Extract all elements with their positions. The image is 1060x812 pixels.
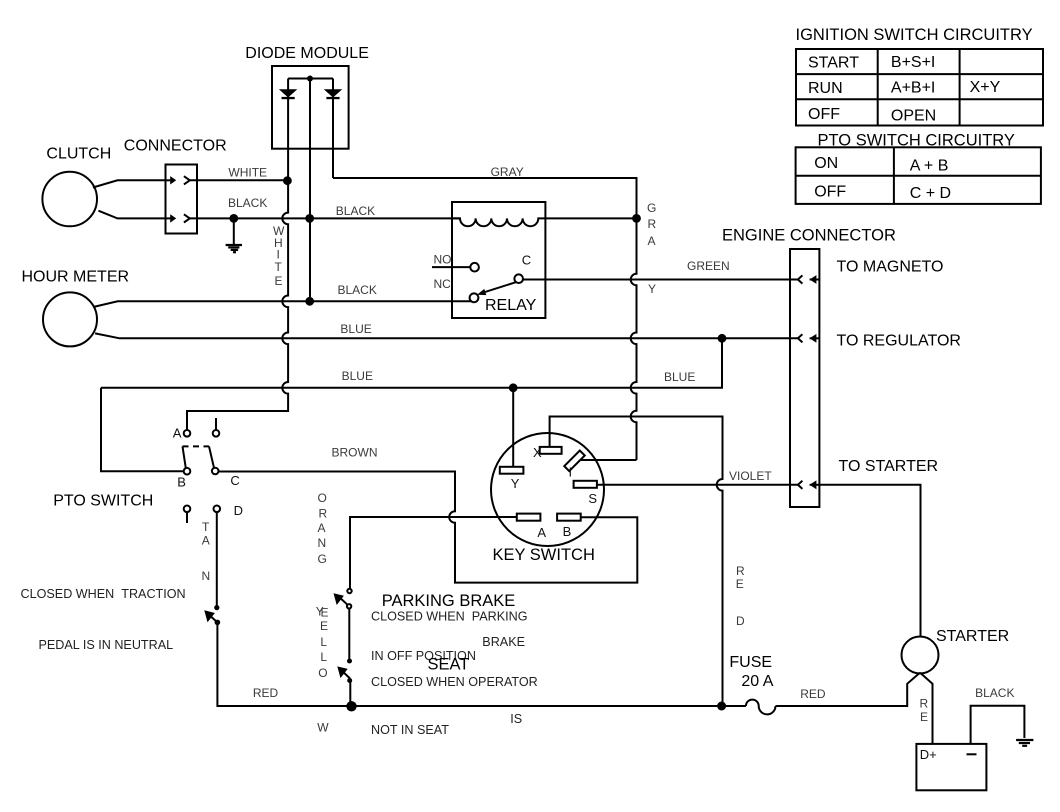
diode module top bus wire <box>288 78 333 80</box>
svg-text:BLACK: BLACK <box>228 196 267 210</box>
svg-text:C: C <box>522 253 531 268</box>
svg-text:A: A <box>537 525 546 540</box>
svg-text:RED: RED <box>800 687 826 701</box>
node dot diode bus <box>307 76 313 82</box>
key terminal I <box>564 451 585 472</box>
traction switch fixed dot <box>214 605 219 610</box>
svg-text:I: I <box>569 465 573 480</box>
svg-text:BLACK: BLACK <box>338 283 377 297</box>
wire right diode vertical <box>332 79 334 179</box>
node dot ground junction <box>229 214 238 223</box>
svg-text:E: E <box>736 577 744 591</box>
svg-text:BLUE: BLUE <box>664 370 695 384</box>
node dot regulator <box>718 334 727 343</box>
wire black connector to relay coil <box>190 217 460 219</box>
svg-text:STARTER: STARTER <box>936 628 1009 645</box>
pto table <box>796 147 1041 204</box>
wire key Y up to blue <box>512 388 514 467</box>
ground stub at connector <box>233 218 235 244</box>
PTO switch contact C <box>212 468 219 475</box>
wire starter to battery plus <box>920 673 933 744</box>
node dot black/middle-diode <box>305 214 314 223</box>
wire key X to red vertical <box>550 417 723 707</box>
svg-text:PTO SWITCH: PTO SWITCH <box>53 493 153 510</box>
diode module box <box>272 66 349 149</box>
wire traction to red <box>217 622 746 706</box>
svg-text:E: E <box>920 710 928 724</box>
svg-text:D+: D+ <box>920 747 937 762</box>
svg-text:X: X <box>533 445 542 460</box>
wire clutch bottom lead <box>98 211 165 219</box>
svg-text:R: R <box>920 697 929 711</box>
svg-text:CONNECTOR: CONNECTOR <box>124 138 227 155</box>
svg-text:RELAY: RELAY <box>485 297 537 314</box>
svg-text:A: A <box>648 234 656 248</box>
svg-text:IS: IS <box>510 712 522 726</box>
key terminal X <box>540 447 562 454</box>
wire hour meter bottom lead (blue) <box>95 333 798 338</box>
svg-text:CLUTCH: CLUTCH <box>46 146 111 163</box>
svg-text:IGNITION SWITCH CIRCUITRY: IGNITION SWITCH CIRCUITRY <box>796 26 1033 44</box>
svg-text:GREEN: GREEN <box>687 259 730 273</box>
svg-text:ENGINE CONNECTOR: ENGINE CONNECTOR <box>722 226 896 244</box>
svg-text:O: O <box>318 666 327 680</box>
svg-text:A+B+I: A+B+I <box>891 80 935 97</box>
node dot seat/red <box>346 701 356 711</box>
svg-text:TO MAGNETO: TO MAGNETO <box>837 259 944 276</box>
node dot gray/coil <box>632 214 641 223</box>
relay switch arm <box>484 282 516 292</box>
key terminal B <box>557 514 581 521</box>
svg-text:G: G <box>647 201 656 215</box>
svg-text:A: A <box>318 521 326 535</box>
wire gray <box>333 178 637 460</box>
svg-text:ON: ON <box>814 155 838 172</box>
svg-text:BROWN: BROWN <box>332 446 378 460</box>
svg-text:NOT IN SEAT: NOT IN SEAT <box>371 723 449 737</box>
connector arrow bottom row <box>170 214 176 222</box>
key terminal Y <box>500 467 524 474</box>
wire green relay C to engine connector <box>523 279 798 281</box>
svg-text:START: START <box>808 55 859 72</box>
node dot blue/Y <box>509 383 518 392</box>
wire orange key A to parking brake <box>350 517 517 589</box>
parking brake pivot contact <box>347 604 351 608</box>
svg-text:C: C <box>230 473 239 488</box>
node dot white junction <box>283 176 292 185</box>
svg-text:L: L <box>320 650 327 664</box>
svg-text:R: R <box>319 507 328 521</box>
svg-text:A: A <box>173 426 182 441</box>
svg-text:OFF: OFF <box>814 184 846 201</box>
svg-text:Y: Y <box>648 282 656 296</box>
node dot red/fuse <box>717 702 726 711</box>
starter circle <box>902 637 939 674</box>
svg-text:BLACK: BLACK <box>336 204 375 218</box>
PTO arm B <box>183 446 186 468</box>
node dot black2/middle-diode <box>305 297 314 306</box>
seat switch arm <box>343 671 351 678</box>
svg-text:BLUE: BLUE <box>342 369 373 383</box>
PTO switch contact B <box>184 468 191 475</box>
traction switch pivot dot <box>215 620 221 626</box>
wire PTO D down to traction switch <box>216 512 218 605</box>
wire NO stub <box>432 266 470 268</box>
svg-text:D: D <box>736 614 745 628</box>
svg-text:B: B <box>563 524 572 539</box>
relay box <box>452 202 545 318</box>
seat switch pivot dot <box>347 678 352 683</box>
wire seat to red <box>349 681 351 707</box>
svg-text:PTO SWITCH CIRCUITRY: PTO SWITCH CIRCUITRY <box>818 131 1015 149</box>
svg-text:A + B: A + B <box>910 158 949 175</box>
hour meter circle <box>43 292 97 346</box>
svg-text:A: A <box>202 534 210 548</box>
wire blue2 horizontal <box>101 338 722 388</box>
PTO top-right stub <box>215 418 217 430</box>
svg-text:R: R <box>648 217 657 231</box>
clutch circle <box>42 172 97 227</box>
ignition table <box>796 49 1043 126</box>
traction switch arm <box>210 615 218 622</box>
svg-text:OFF: OFF <box>808 106 840 123</box>
wire to starter <box>819 485 920 637</box>
svg-text:G: G <box>318 552 327 566</box>
PTO switch contact top-right <box>213 430 220 437</box>
svg-text:BRAKE: BRAKE <box>482 635 525 649</box>
svg-text:PARKING BRAKE: PARKING BRAKE <box>382 592 516 610</box>
svg-text:CLOSED WHEN PARKING: CLOSED WHEN PARKING <box>371 610 528 624</box>
svg-text:T: T <box>275 260 283 274</box>
wire middle diode vertical <box>309 79 311 302</box>
svg-text:CLOSED WHEN OPERATOR: CLOSED WHEN OPERATOR <box>371 675 538 689</box>
seat switch fixed dot <box>347 659 352 664</box>
wire hour meter top lead (black) <box>93 301 471 307</box>
svg-text:SEAT: SEAT <box>428 656 470 674</box>
svg-text:RED: RED <box>253 686 279 700</box>
svg-text:WHITE: WHITE <box>228 166 267 180</box>
PTO dashed link <box>183 445 210 447</box>
relay coil <box>452 218 637 226</box>
engine connector starter chevron <box>798 481 803 489</box>
PTO switch contact D <box>214 506 221 513</box>
svg-text:GRAY: GRAY <box>491 165 524 179</box>
key terminal S <box>574 481 597 488</box>
relay C contact <box>514 274 523 283</box>
svg-text:L: L <box>320 635 327 649</box>
svg-text:R: R <box>736 564 745 578</box>
svg-text:D: D <box>234 503 243 518</box>
svg-text:NC: NC <box>434 277 452 291</box>
parking brake arm <box>340 598 347 605</box>
PTO arm C <box>209 446 214 468</box>
PTO switch contact A <box>184 430 191 437</box>
svg-text:B: B <box>177 474 186 489</box>
svg-text:BLUE: BLUE <box>340 322 371 336</box>
connector arrow top row <box>170 176 176 184</box>
fuse symbol <box>746 700 776 715</box>
svg-text:N: N <box>202 569 211 583</box>
svg-text:TO REGULATOR: TO REGULATOR <box>837 333 961 350</box>
diode D2 <box>326 90 339 96</box>
PTO switch contact bottom-left <box>184 506 191 513</box>
wire I terminal <box>580 459 637 461</box>
svg-text:KEY SWITCH: KEY SWITCH <box>493 546 595 564</box>
svg-text:E: E <box>320 619 328 633</box>
svg-text:RUN: RUN <box>808 80 843 97</box>
svg-text:S: S <box>588 491 597 506</box>
svg-text:T: T <box>202 520 210 534</box>
svg-text:B+S+I: B+S+I <box>891 54 935 71</box>
svg-text:W: W <box>317 721 329 735</box>
svg-text:TO STARTER: TO STARTER <box>839 458 939 475</box>
battery minus bar <box>967 753 977 755</box>
parking brake top contact <box>347 589 351 593</box>
svg-text:FUSE: FUSE <box>729 654 772 671</box>
svg-text:Y: Y <box>316 605 324 619</box>
svg-text:X+Y: X+Y <box>970 79 1001 96</box>
svg-text:VIOLET: VIOLET <box>729 469 772 483</box>
connector box <box>166 165 198 234</box>
svg-text:NO: NO <box>434 252 452 266</box>
svg-text:O: O <box>318 491 327 505</box>
svg-text:E: E <box>275 274 283 288</box>
diode D1 <box>282 90 295 96</box>
wire battery black to ground <box>971 706 1025 744</box>
svg-text:OPEN: OPEN <box>891 108 936 125</box>
wire red fuse to starter <box>776 673 921 706</box>
wire violet key S to engine connector <box>597 484 798 486</box>
svg-text:BLACK: BLACK <box>975 686 1014 700</box>
engine connector magneto chevron <box>798 275 803 283</box>
relay NC contact <box>470 293 479 302</box>
svg-text:HOUR METER: HOUR METER <box>22 268 130 285</box>
wire parking brake to seat <box>348 609 350 660</box>
ground symbol connector <box>226 244 242 246</box>
engine connector box <box>790 249 819 507</box>
svg-text:DIODE MODULE: DIODE MODULE <box>245 45 369 62</box>
key terminal A <box>517 514 541 521</box>
svg-text:C + D: C + D <box>910 185 951 202</box>
key switch circle <box>491 433 604 546</box>
wire left diode vertical (white) <box>187 79 288 431</box>
PTO bottom-left stub <box>186 512 188 523</box>
engine connector regulator chevron <box>798 334 803 342</box>
svg-text:20 A: 20 A <box>741 673 773 690</box>
svg-text:N: N <box>318 536 327 550</box>
wire clutch top lead <box>93 180 166 187</box>
wire white connector to diode <box>190 179 288 181</box>
ground symbol battery <box>1016 739 1033 741</box>
battery box <box>916 744 986 790</box>
svg-text:PEDAL IS IN NEUTRAL: PEDAL IS IN NEUTRAL <box>39 638 174 652</box>
svg-text:CLOSED WHEN TRACTION: CLOSED WHEN TRACTION <box>21 587 186 601</box>
wire brown PTO C to key B <box>219 472 638 583</box>
wire left vertical to PTO B <box>101 388 184 471</box>
relay NO contact <box>470 263 479 272</box>
svg-text:Y: Y <box>511 476 520 491</box>
